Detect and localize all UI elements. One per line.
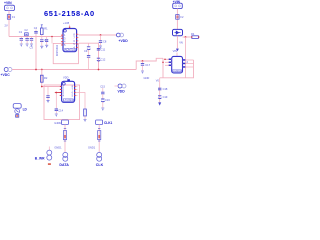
svg-text:GND: GND [144, 76, 150, 80]
node junction bus x41.8 [41, 69, 43, 71]
resistor R2 [41, 75, 48, 82]
svg-text:C9: C9 [84, 49, 88, 53]
svg-text:C1: C1 [19, 30, 23, 34]
U2 left pins [164, 59, 172, 67]
fuse F2 [176, 15, 184, 20]
svg-text:DATA: DATA [59, 163, 69, 167]
U2 right pins [183, 59, 194, 67]
net arrow (to U2 input) [176, 49, 179, 52]
wire down right side to loop [185, 37, 187, 78]
diode D1 (reverse protect) [173, 29, 183, 35]
svg-text:+VDC: +VDC [1, 73, 11, 77]
ground (C8) [99, 46, 102, 48]
connector P2 +VIN (top right) [173, 0, 183, 9]
resistor R4 [191, 32, 199, 38]
svg-text:F2: F2 [180, 15, 184, 19]
wire down to U3 [42, 70, 62, 87]
svg-text:4: 4 [63, 94, 65, 98]
oscillator U3 [62, 75, 75, 102]
U3 right pins [72, 85, 78, 98]
bus wire VDC [12, 69, 136, 71]
svg-text:+1V8: +1V8 [63, 21, 70, 25]
svg-text:GND1: GND1 [88, 146, 96, 150]
svg-text:C8: C8 [103, 40, 107, 44]
wire bus up-right jog [136, 58, 163, 69]
wire J1 down [64, 125, 66, 153]
svg-text:651-2158-A0: 651-2158-A0 [44, 9, 95, 18]
wire vertical x36 to lower bus [35, 37, 37, 70]
wire U1 out to +VDD [79, 34, 117, 36]
svg-text:LD: LD [23, 108, 28, 112]
ground (C13) [47, 100, 50, 102]
DNP box 2 around U3 [44, 85, 80, 120]
svg-text:R2: R2 [44, 76, 48, 80]
capacitor C19 (polarized) [158, 95, 168, 99]
wire J2 down [98, 125, 100, 153]
ground (C14) [55, 114, 58, 116]
resistor R3 right of box2 [77, 93, 86, 120]
svg-text:V0: V0 [156, 78, 160, 82]
resistor R5 [63, 129, 66, 141]
capacitor C17 [141, 61, 151, 71]
header J1 (DATA) [54, 120, 68, 125]
jumper circles (DATA) [63, 152, 68, 161]
connector VDD (mid) [115, 84, 127, 93]
jumper circles (CLK) [97, 152, 102, 161]
connector P1 +VIN (top left) [4, 1, 15, 11]
svg-text:VDD: VDD [63, 75, 69, 79]
svg-text:VDD: VDD [118, 89, 126, 93]
header J2 (CLK) [96, 120, 113, 125]
capacitor C12 (polarized) on x98.5 [97, 57, 106, 61]
regulator U1 [63, 21, 77, 52]
LED LD1 stack [13, 104, 27, 118]
svg-text:C17: C17 [145, 63, 150, 67]
ground (R3) [84, 120, 87, 122]
connector +VDD [116, 33, 128, 43]
node junction at U3 wire [41, 86, 43, 88]
diode D2 (input clamp) [25, 33, 29, 36]
wire D1 down to arrow [176, 36, 178, 49]
svg-text:DNP0402: DNP0402 [55, 44, 59, 56]
node junction loop [162, 62, 164, 64]
red mark below B_WR circles [48, 163, 51, 165]
svg-text:2V: 2V [5, 24, 8, 28]
node junction bus x36 [35, 69, 37, 71]
svg-text:F1: F1 [12, 15, 16, 19]
svg-text:5: 5 [72, 94, 74, 98]
capacitor C18 [158, 87, 168, 91]
capacitor C10 [87, 56, 90, 70]
wire D1 right to R4 [183, 36, 192, 38]
svg-text:C12: C12 [101, 57, 106, 61]
capacitor C11 on x98.5 [97, 47, 106, 51]
svg-text:CLK: CLK [96, 163, 104, 167]
capacitor C16 (polarized) [101, 98, 110, 108]
U3 left pins [59, 85, 64, 98]
ground (C16) [101, 108, 104, 110]
capacitor C2 [24, 28, 28, 44]
svg-text:CLK1: CLK1 [104, 121, 113, 125]
svg-text:ADM7160: ADM7160 [65, 48, 77, 52]
svg-text:C15: C15 [100, 85, 105, 89]
resistor R1 above bus [41, 25, 49, 37]
svg-text:VIN: VIN [173, 49, 177, 53]
svg-text:VN: VN [179, 41, 183, 45]
svg-text:B_WR: B_WR [35, 156, 45, 160]
U1 left pins 2,3,4,5 [61, 33, 66, 47]
capacitor C5 below bus [40, 37, 48, 46]
wire P2 down [176, 9, 178, 30]
svg-text:C16: C16 [105, 98, 110, 102]
node junction on +VDD wire [100, 34, 102, 36]
svg-text:GND1: GND1 [54, 146, 62, 150]
capacitor C14 under U3 [55, 92, 64, 114]
ground (C1) [20, 44, 23, 46]
connector +VDC (left) [1, 68, 13, 78]
capacitor C13 [46, 87, 49, 101]
supervisor U2 [172, 49, 183, 73]
node junction bus x98.5 [98, 69, 100, 71]
svg-text:LM4040: LM4040 [173, 69, 183, 73]
svg-text:C11: C11 [101, 47, 106, 51]
wire main left bus [9, 36, 63, 38]
ground (C3) [30, 44, 33, 46]
wire tap into box1 [51, 37, 53, 44]
node junction at x142.5 [142, 60, 144, 62]
svg-text:C14: C14 [58, 109, 63, 113]
fuse F1 [7, 15, 15, 20]
wire U1 out lower, down to bus [79, 43, 99, 69]
svg-text:G4DM: G4DM [54, 121, 62, 125]
resistor R6 [98, 129, 101, 141]
ground (C2) [26, 44, 29, 46]
ground arrow (right column) [158, 102, 161, 105]
wire from P1 down [8, 11, 10, 37]
ground GND (C17) [141, 71, 149, 80]
node junction x52 [51, 36, 53, 38]
wire right lower column [159, 78, 161, 103]
ground (C6) [45, 45, 48, 47]
ground (C5) [40, 46, 43, 48]
svg-text:+VIN: +VIN [4, 1, 12, 5]
capacitor C3 [30, 37, 34, 50]
capacitor C6 below bus [45, 37, 48, 45]
capacitor C15 [101, 88, 104, 99]
capacitor C4 above bus [34, 26, 38, 37]
node junction [185, 36, 187, 38]
svg-text:+VDD: +VDD [119, 39, 129, 43]
capacitor C9 (polarized) [84, 43, 90, 55]
wire feedback loop around U2 [160, 58, 194, 78]
svg-text:R1: R1 [44, 27, 48, 31]
svg-text:C2: C2 [24, 28, 28, 32]
svg-text:C18: C18 [163, 87, 168, 91]
U1 right pins 6,7,8,9,10 [73, 32, 78, 49]
jumper circles (B_WR) [47, 147, 52, 161]
DNP box 1 around U1 output parts [53, 43, 78, 63]
wire (red) to U3 pin 3 [55, 92, 62, 94]
svg-text:C4: C4 [34, 26, 38, 30]
capacitor C8 at junction [99, 35, 107, 46]
capacitor C1 [19, 30, 23, 43]
svg-text:LTC6900: LTC6900 [64, 98, 75, 102]
svg-text:C19: C19 [163, 95, 168, 99]
